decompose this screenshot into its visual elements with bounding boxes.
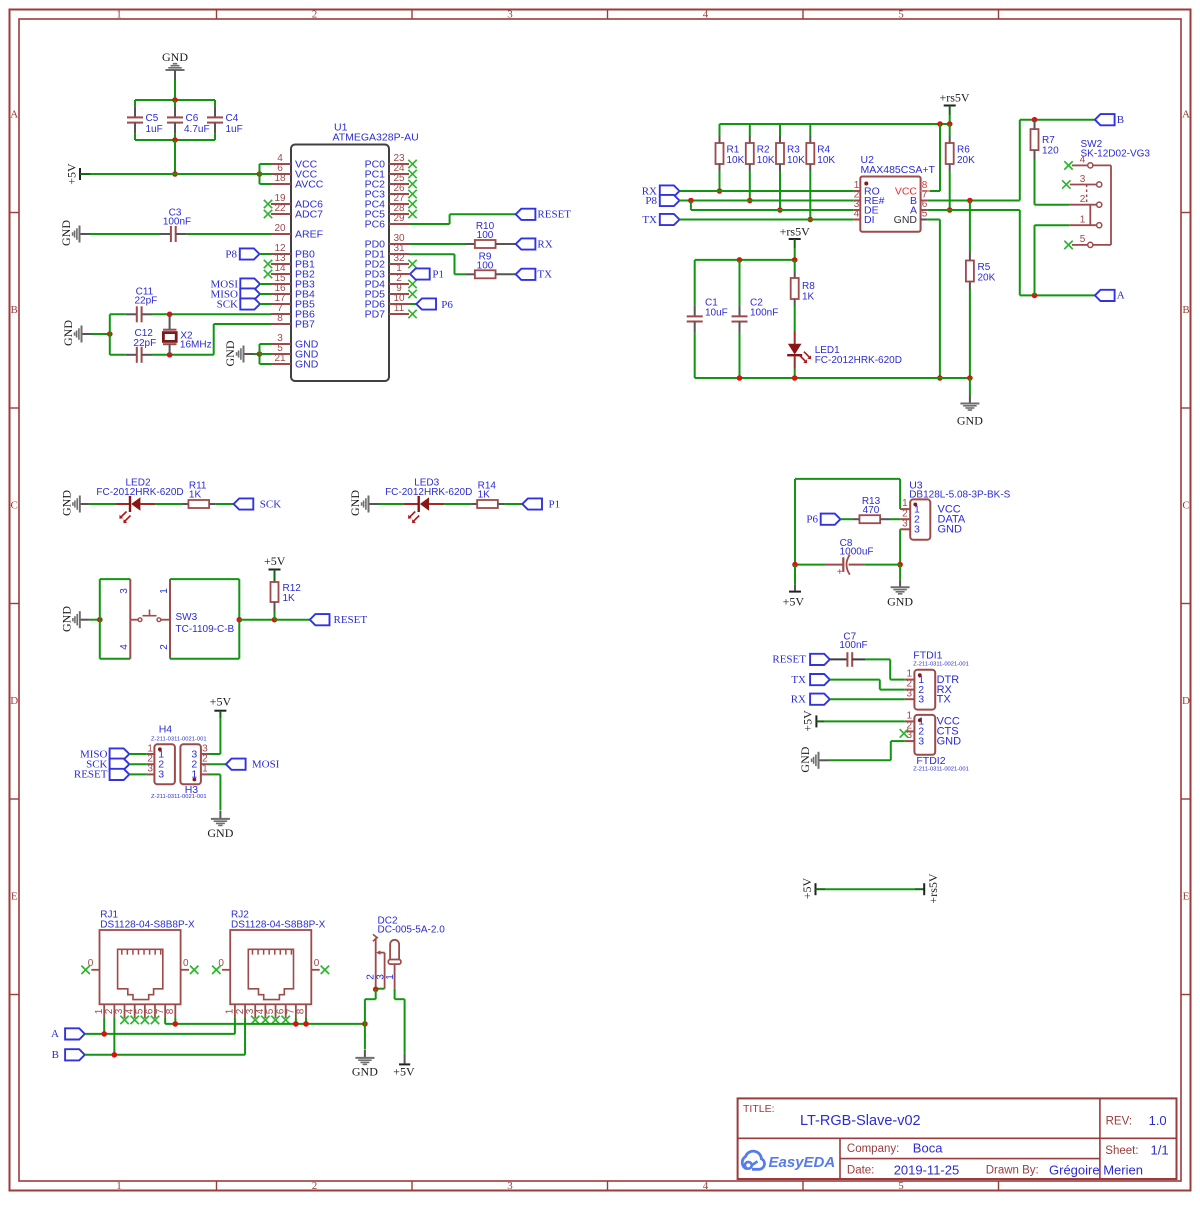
svg-text:22pF: 22pF bbox=[133, 338, 156, 349]
svg-text:120: 120 bbox=[1042, 146, 1059, 157]
DC2 pin 2 (sleeve) bbox=[366, 934, 378, 988]
svg-text:P8: P8 bbox=[645, 195, 657, 207]
svg-text:Z-211-0311-0021-001: Z-211-0311-0021-001 bbox=[913, 766, 969, 772]
power flag +rs5V (pull-up rail) bbox=[939, 91, 969, 116]
U1 pin 29 PC6 bbox=[365, 213, 409, 230]
svg-text:Z-211-0311-0021-001: Z-211-0311-0021-001 bbox=[913, 661, 969, 667]
svg-text:GND: GND bbox=[162, 50, 188, 64]
svg-text:3: 3 bbox=[907, 730, 913, 741]
svg-text:FC-2012HRK-620D: FC-2012HRK-620D bbox=[96, 487, 183, 498]
wire bbox=[152, 313, 271, 315]
junction bbox=[1032, 293, 1038, 299]
svg-text:8: 8 bbox=[296, 1008, 307, 1014]
svg-text:RESET: RESET bbox=[537, 209, 571, 221]
svg-text:EasyEDA: EasyEDA bbox=[769, 1154, 836, 1171]
U1 pin 17 PB5 bbox=[271, 293, 315, 310]
title block frame bbox=[738, 1098, 1177, 1179]
wire bbox=[840, 518, 852, 520]
wire bbox=[930, 124, 940, 191]
svg-text:8: 8 bbox=[277, 313, 283, 324]
wire bbox=[92, 333, 110, 335]
port RX (FTDI) bbox=[791, 694, 830, 706]
svg-text:1uF: 1uF bbox=[146, 124, 163, 135]
junction bbox=[112, 1052, 118, 1058]
svg-text:GND: GND bbox=[352, 1065, 378, 1079]
power flag +5V (U3) bbox=[783, 565, 805, 609]
svg-text:C: C bbox=[11, 500, 18, 512]
junction bbox=[172, 171, 178, 177]
wire bbox=[949, 115, 951, 124]
power flag GND (AREF) bbox=[59, 220, 90, 246]
junction bbox=[947, 121, 953, 127]
svg-text:1K: 1K bbox=[189, 490, 202, 501]
capacitor C5 bbox=[127, 100, 163, 140]
junction bbox=[373, 987, 379, 993]
power flag +5V (FTDI2) bbox=[801, 710, 825, 732]
svg-text:+5V: +5V bbox=[801, 710, 815, 732]
svg-text:22pF: 22pF bbox=[135, 296, 158, 307]
junction bbox=[272, 617, 278, 623]
svg-text:8: 8 bbox=[165, 1008, 176, 1014]
RJ2 pin 5 bbox=[265, 1004, 276, 1018]
U1 pin 10 PD6 bbox=[365, 293, 409, 310]
svg-text:DB128L-5.08-3P-BK-S: DB128L-5.08-3P-BK-S bbox=[909, 489, 1010, 500]
svg-text:GND: GND bbox=[894, 214, 918, 226]
power flag GND (LED2) bbox=[59, 490, 90, 516]
wire bbox=[1020, 120, 1095, 201]
junction bbox=[237, 617, 243, 623]
capacitor C11 bbox=[110, 286, 157, 322]
U1 pin 11 PD7 bbox=[365, 303, 409, 320]
svg-text:DI: DI bbox=[864, 214, 875, 226]
wire bbox=[825, 720, 905, 722]
junction bbox=[937, 121, 943, 127]
U1 pin 25 PC2 bbox=[365, 173, 409, 190]
no-connect X (RJ1 pin 4) bbox=[130, 1016, 138, 1024]
port B (RS485) bbox=[1095, 114, 1124, 126]
LED LED2 FC-2012HRK-620D bbox=[96, 478, 183, 524]
svg-text:GND: GND bbox=[59, 606, 73, 632]
svg-text:R8: R8 bbox=[802, 281, 815, 292]
U1 pin 14 PB2 bbox=[271, 263, 315, 280]
RJ1 pin 2 bbox=[104, 1004, 115, 1018]
junction bbox=[747, 198, 753, 204]
junction bbox=[362, 1021, 368, 1027]
svg-text:1K: 1K bbox=[283, 593, 296, 604]
resistor R1 10K bbox=[716, 124, 745, 191]
wire bbox=[174, 1018, 176, 1024]
svg-text:TX: TX bbox=[937, 694, 952, 706]
power flag GND (decoupling bank) bbox=[162, 50, 188, 80]
port SCK (U1) bbox=[217, 298, 271, 310]
U1 pin 18 AVCC bbox=[271, 173, 324, 190]
svg-text:100nF: 100nF bbox=[163, 217, 191, 228]
wire bbox=[90, 619, 100, 621]
RJ2 pin 4 bbox=[255, 1004, 266, 1018]
svg-text:GND: GND bbox=[61, 320, 75, 346]
svg-text:FTDI2: FTDI2 bbox=[916, 755, 945, 767]
svg-text:1: 1 bbox=[116, 1180, 122, 1192]
SW2 pin 4 bbox=[1064, 155, 1093, 170]
svg-text:H4: H4 bbox=[159, 724, 173, 736]
wire bbox=[155, 503, 182, 505]
SW2 pin 5 bbox=[1064, 234, 1093, 249]
svg-text:+rs5V: +rs5V bbox=[926, 873, 940, 903]
power flag +rs5V (LED filter) bbox=[780, 225, 810, 249]
wire bbox=[275, 619, 310, 621]
header FTDI1 Z-211-0311-0021-001 body bbox=[913, 650, 969, 710]
switch SW3 TC-1109-C-B body bbox=[130, 579, 234, 659]
H4 pin 2 bbox=[147, 754, 165, 771]
svg-text:+5V: +5V bbox=[393, 1065, 415, 1079]
svg-text:1: 1 bbox=[116, 9, 122, 21]
IC U1 ATMEGA328P-AU body bbox=[291, 122, 419, 381]
U1 pin 6 VCC bbox=[271, 163, 318, 180]
svg-text:1K: 1K bbox=[802, 292, 815, 303]
resistor R9 100 bbox=[466, 252, 516, 279]
resistor R4 10K bbox=[806, 124, 835, 220]
svg-text:+rs5V: +rs5V bbox=[939, 91, 969, 105]
svg-text:C5: C5 bbox=[146, 113, 159, 124]
svg-text:4: 4 bbox=[703, 9, 709, 21]
capacitor C3 bbox=[160, 208, 271, 243]
RJ2 pin 3 bbox=[245, 1004, 256, 1018]
svg-text:3: 3 bbox=[507, 1180, 513, 1192]
port RESET (FTDI) bbox=[772, 654, 829, 666]
svg-text:2019-11-25: 2019-11-25 bbox=[894, 1163, 960, 1178]
SW2 pin 1 bbox=[1070, 215, 1102, 228]
no-connect X (RJ2 pin 5) bbox=[271, 1016, 279, 1024]
svg-text:MAX485CSA+T: MAX485CSA+T bbox=[861, 164, 936, 176]
RJ1 pin 4 bbox=[124, 1004, 135, 1018]
wire bbox=[1020, 210, 1095, 295]
RJ1 pin 7 bbox=[155, 1004, 166, 1018]
svg-text:10K: 10K bbox=[787, 155, 805, 166]
RJ2 pin 6 bbox=[275, 1004, 286, 1018]
svg-text:+5V: +5V bbox=[210, 695, 232, 709]
svg-text:Z-211-0311-0021-001: Z-211-0311-0021-001 bbox=[151, 794, 207, 800]
U1 pin 19 ADC6 bbox=[271, 193, 323, 210]
wire bbox=[864, 564, 900, 566]
junction bbox=[173, 1021, 179, 1027]
junction bbox=[293, 1021, 299, 1027]
wire bbox=[795, 564, 826, 566]
H4 pin 3 bbox=[147, 764, 165, 781]
svg-text:3: 3 bbox=[914, 524, 920, 536]
svg-text:2: 2 bbox=[159, 644, 170, 650]
H4 pin 1 bbox=[147, 743, 165, 760]
svg-text:Sheet:: Sheet: bbox=[1105, 1145, 1138, 1157]
port RESET (SW3) bbox=[310, 614, 368, 626]
wire bbox=[209, 718, 221, 754]
wire bbox=[899, 529, 901, 564]
junction bbox=[688, 198, 694, 204]
svg-text:0: 0 bbox=[314, 958, 320, 969]
svg-text:2: 2 bbox=[312, 1180, 318, 1192]
svg-text:R6: R6 bbox=[957, 145, 970, 156]
resistor R6 20K bbox=[946, 124, 975, 210]
junction bbox=[792, 375, 798, 381]
wire bbox=[1035, 204, 1070, 206]
svg-text:E: E bbox=[1183, 891, 1190, 903]
no-connect X (U1 right pin) bbox=[408, 170, 416, 178]
resistor R13 470 bbox=[852, 496, 890, 523]
svg-text:RESET: RESET bbox=[334, 614, 368, 626]
svg-text:A: A bbox=[10, 109, 18, 121]
svg-text:Boca: Boca bbox=[913, 1141, 943, 1156]
wire bbox=[409, 303, 416, 305]
FTDI1 pin 3 TX bbox=[905, 688, 952, 705]
power flag +5V (U1 supply) bbox=[65, 163, 91, 185]
port P6 (PD6) bbox=[416, 298, 453, 311]
svg-text:+5V: +5V bbox=[800, 877, 814, 899]
no-connect X (RJ1 pin 5) bbox=[141, 1016, 149, 1024]
svg-text:C6: C6 bbox=[186, 113, 199, 124]
wire bbox=[695, 377, 970, 379]
port A (bus) bbox=[51, 1028, 85, 1040]
svg-text:B: B bbox=[11, 304, 18, 316]
U3 pin 3 GND bbox=[900, 518, 962, 535]
wire bbox=[695, 259, 795, 261]
wire bbox=[295, 1018, 297, 1024]
svg-text:10uF: 10uF bbox=[705, 308, 728, 319]
wire bbox=[720, 123, 950, 125]
wire bbox=[90, 233, 161, 235]
svg-text:P1: P1 bbox=[432, 268, 444, 280]
junction bbox=[167, 352, 173, 358]
wire bbox=[376, 988, 385, 990]
power flag GND (RS485) bbox=[957, 378, 983, 428]
no-connect X (U1 right pin) bbox=[408, 190, 416, 198]
junction bbox=[303, 1021, 309, 1027]
no-connect X (FTDI2 CTS) bbox=[900, 729, 908, 737]
svg-text:3: 3 bbox=[918, 735, 924, 747]
U1 pin 15 PB3 bbox=[271, 273, 315, 290]
U1 pin 26 PC3 bbox=[365, 183, 409, 200]
wire bbox=[152, 354, 214, 356]
wire bbox=[795, 479, 900, 565]
U2 pin 5 GND bbox=[894, 209, 928, 226]
svg-text:4: 4 bbox=[119, 644, 130, 650]
port B (bus) bbox=[52, 1049, 85, 1061]
wire (left loop) bbox=[100, 579, 131, 659]
wire bbox=[680, 200, 854, 202]
svg-text:29: 29 bbox=[393, 213, 405, 224]
junction bbox=[1032, 117, 1038, 123]
U1 pin 31 PD1 bbox=[365, 243, 409, 260]
svg-text:10K: 10K bbox=[817, 155, 835, 166]
svg-text:PC6: PC6 bbox=[365, 218, 386, 230]
wire bbox=[794, 248, 796, 260]
svg-text:D: D bbox=[1182, 695, 1190, 707]
U1 pin 16 PB4 bbox=[271, 283, 315, 300]
power flag GND (DC2) bbox=[352, 1050, 378, 1079]
capacitor C1 10uF bbox=[687, 260, 728, 378]
U1 pin 27 PC4 bbox=[365, 193, 409, 210]
FTDI2 pin 3 GND bbox=[905, 730, 961, 747]
svg-text:5: 5 bbox=[1080, 234, 1086, 245]
RJ1 pin 8 bbox=[165, 1004, 176, 1018]
svg-text:SCK: SCK bbox=[260, 498, 281, 510]
svg-text:1: 1 bbox=[159, 588, 170, 594]
wire bbox=[409, 243, 465, 245]
wire bbox=[135, 99, 215, 101]
U1 pin 8 PB7 bbox=[271, 313, 315, 330]
RJ1 pin 0 (shield left) bbox=[81, 958, 99, 974]
svg-text:R2: R2 bbox=[757, 145, 770, 156]
no-connect X (RJ1 pin 6) bbox=[151, 1016, 159, 1024]
svg-text:100nF: 100nF bbox=[839, 640, 867, 651]
svg-text:SCK: SCK bbox=[217, 298, 238, 310]
svg-text:GND: GND bbox=[223, 340, 237, 366]
svg-text:Grégoire Merien: Grégoire Merien bbox=[1049, 1163, 1143, 1178]
svg-text:16MHz: 16MHz bbox=[180, 339, 212, 350]
port TX (to U2 DI) bbox=[642, 214, 679, 226]
svg-text:10K: 10K bbox=[757, 155, 775, 166]
wire bbox=[113, 1018, 115, 1055]
no-connect X (U1 left pin) bbox=[264, 210, 272, 218]
RJ1 pin 0 (shield right) bbox=[181, 958, 199, 974]
U1 pin 5 GND bbox=[271, 343, 319, 360]
svg-text:TX: TX bbox=[642, 214, 657, 226]
port P8 (to U2 RE#) bbox=[645, 195, 679, 207]
svg-text:3: 3 bbox=[507, 9, 513, 21]
port SCK (H4) bbox=[86, 759, 147, 771]
resistor R10 100 bbox=[465, 221, 516, 248]
junction bbox=[737, 257, 743, 263]
svg-text:1K: 1K bbox=[478, 490, 491, 501]
U1 pin 32 PD2 bbox=[365, 253, 409, 270]
wire bbox=[830, 698, 905, 700]
svg-text:4: 4 bbox=[854, 209, 860, 220]
no-connect X (U1 right pin) bbox=[408, 160, 416, 168]
junction bbox=[737, 375, 743, 381]
resistor R2 10K bbox=[746, 124, 775, 201]
wire bbox=[830, 680, 905, 690]
svg-text:5: 5 bbox=[898, 1180, 904, 1192]
svg-text:3: 3 bbox=[918, 694, 924, 706]
power flag +rs5V (tie) bbox=[915, 873, 940, 903]
connector RJ2 DS1128-04-S8B8P-X body bbox=[230, 909, 325, 1004]
U2 pin 6 A bbox=[910, 199, 928, 216]
svg-text:1000uF: 1000uF bbox=[840, 546, 874, 557]
svg-text:2: 2 bbox=[312, 9, 318, 21]
junction bbox=[792, 257, 798, 263]
svg-text:FC-2012HRK-620D: FC-2012HRK-620D bbox=[385, 487, 472, 498]
no-connect X (U1 left pin) bbox=[264, 200, 272, 208]
wire bbox=[927, 200, 1020, 202]
port RX (PD0) bbox=[516, 238, 553, 250]
svg-text:P6: P6 bbox=[441, 299, 453, 311]
power flag GND (SW3) bbox=[59, 606, 90, 632]
wire bbox=[91, 173, 260, 175]
date text bbox=[847, 1163, 959, 1178]
LED LED3 FC-2012HRK-620D bbox=[385, 478, 472, 524]
wire bbox=[865, 659, 905, 679]
wire bbox=[135, 139, 215, 141]
wire bbox=[103, 1018, 105, 1034]
junction bbox=[777, 207, 783, 213]
wire (right loop) bbox=[170, 579, 239, 659]
RJ2 pin 8 bbox=[296, 1004, 307, 1018]
wire bbox=[260, 253, 272, 255]
DC2 pin 3 (switch) bbox=[375, 950, 386, 988]
U1 pin 7 PB6 bbox=[271, 303, 315, 320]
svg-text:A: A bbox=[1117, 290, 1125, 302]
resistor R12 1K bbox=[271, 581, 302, 620]
resistor R8 1K bbox=[791, 260, 816, 306]
wire bbox=[214, 324, 271, 355]
junction bbox=[947, 207, 953, 213]
no-connect X (U1 left pin) bbox=[264, 270, 272, 278]
wire bbox=[165, 1018, 365, 1024]
RJ2 pin 2 bbox=[235, 1004, 246, 1018]
junction bbox=[257, 351, 263, 357]
svg-text:FC-2012HRK-620D: FC-2012HRK-620D bbox=[815, 355, 902, 366]
capacitor C7 100nF bbox=[830, 632, 868, 667]
switch SW2 SK-12D02-VG3 body bbox=[1081, 139, 1151, 245]
connector DC2 DC-005-5A-2.0 body bbox=[378, 915, 446, 935]
no-connect X (RJ2 pin 4) bbox=[261, 1016, 269, 1024]
svg-text:1.0: 1.0 bbox=[1149, 1113, 1167, 1128]
svg-text:R1: R1 bbox=[727, 145, 740, 156]
port A (RS485) bbox=[1095, 290, 1125, 302]
svg-text:1: 1 bbox=[1080, 215, 1086, 226]
svg-text:AREF: AREF bbox=[295, 228, 323, 240]
wire bbox=[691, 201, 854, 211]
SW3 pin 2 bbox=[159, 644, 170, 650]
svg-text:GND: GND bbox=[798, 746, 812, 772]
port MOSI (H3) bbox=[226, 759, 280, 771]
power flag GND (U1 ground pins) bbox=[223, 340, 254, 366]
H3 pin 2 bbox=[191, 754, 208, 771]
svg-text:+: + bbox=[837, 567, 843, 578]
H3 pin 1 bbox=[191, 764, 208, 781]
U2 pin 4 DI bbox=[854, 209, 875, 226]
connector RJ1 DS1128-04-S8B8P-X body bbox=[100, 909, 195, 1004]
svg-text:AVCC: AVCC bbox=[295, 178, 324, 190]
svg-text:5: 5 bbox=[898, 9, 904, 21]
svg-text:3: 3 bbox=[1080, 174, 1086, 185]
svg-text:R4: R4 bbox=[817, 145, 830, 156]
junction bbox=[967, 198, 973, 204]
no-connect X (U1 right pin) bbox=[408, 310, 416, 318]
resistor R3 10K bbox=[776, 124, 805, 210]
svg-text:RESET: RESET bbox=[74, 769, 108, 781]
RJ2 pin 0 (shield right) bbox=[311, 958, 329, 974]
H3 pin 3 bbox=[191, 743, 208, 760]
wire bbox=[379, 503, 404, 505]
svg-text:3: 3 bbox=[158, 769, 164, 781]
svg-text:GND: GND bbox=[295, 358, 319, 370]
junction bbox=[937, 375, 943, 381]
svg-text:470: 470 bbox=[863, 505, 880, 516]
wire bbox=[216, 503, 234, 505]
svg-text:LT-RGB-Slave-v02: LT-RGB-Slave-v02 bbox=[800, 1113, 921, 1129]
title text bbox=[743, 1103, 921, 1129]
U1 pin 4 VCC bbox=[271, 153, 318, 170]
header H3 Z-211-0311-0021-001 body bbox=[151, 744, 207, 800]
capacitor C4 bbox=[207, 100, 243, 140]
U1 pin 22 ADC7 bbox=[271, 203, 323, 220]
port MISO (H4) bbox=[80, 748, 147, 760]
U3 pin 2 DATA bbox=[900, 508, 966, 525]
svg-text:TC-1109-C-B: TC-1109-C-B bbox=[176, 624, 235, 635]
svg-text:5: 5 bbox=[922, 209, 928, 220]
svg-text:100: 100 bbox=[477, 260, 494, 271]
svg-text:2: 2 bbox=[1080, 194, 1086, 205]
svg-text:21: 21 bbox=[274, 353, 286, 364]
